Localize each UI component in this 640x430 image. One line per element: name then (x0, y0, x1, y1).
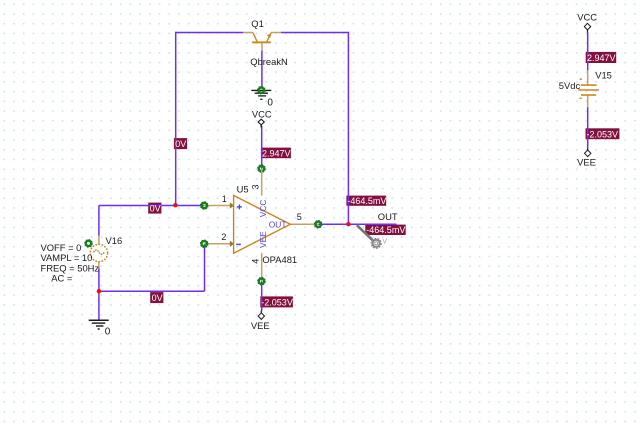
svg-text:3: 3 (250, 184, 260, 189)
svg-text:AC =: AC = (51, 273, 73, 284)
wire VCC symbol to op-amp pin 3 (261, 126, 263, 169)
wire junction to ground 0 (98, 291, 100, 320)
battery V15 (578, 70, 599, 107)
op-amp minus input mark (236, 243, 241, 245)
svg-text:-464.5mV: -464.5mV (347, 196, 386, 206)
svg-text:QbreakN: QbreakN (250, 56, 288, 67)
svg-text:VEE: VEE (577, 156, 596, 167)
svg-text:OUT: OUT (378, 211, 398, 222)
op-amp U5 OPA481 (204, 169, 318, 282)
label -2.053V box on V15 bottom wire (586, 128, 620, 139)
svg-text:U5: U5 (237, 183, 249, 194)
source V16 sine (90, 236, 107, 269)
svg-text:-2.053V: -2.053V (261, 297, 293, 307)
wire op-amp pin 4 to VEE (261, 281, 263, 310)
svg-text:0V: 0V (150, 204, 161, 214)
power VEE below op-amp (251, 311, 270, 331)
wire V15 to VEE (587, 107, 589, 147)
node op-amp pin 3 (258, 165, 265, 172)
node op-amp pin 5 (315, 221, 322, 228)
label 0V box on lower horizontal wire (150, 292, 163, 303)
svg-text:OUT: OUT (269, 219, 287, 229)
wire left vertical from top rail to input rail (175, 32, 177, 206)
node op-amp pin 2 (201, 240, 208, 247)
svg-text:Q1: Q1 (251, 18, 264, 29)
svg-text:OPA481: OPA481 (262, 254, 297, 265)
wire op-amp pin 5 to OUT (318, 223, 396, 225)
junction dot output node (346, 222, 350, 226)
wire lower rail (99, 290, 205, 292)
node marker at V16 (85, 240, 92, 247)
power VEE right branch (577, 147, 596, 167)
junction dot lower rail (97, 289, 101, 293)
svg-text:0: 0 (267, 98, 273, 109)
svg-text:5Vdc: 5Vdc (559, 80, 581, 91)
svg-text:0: 0 (105, 326, 111, 337)
node op-amp pin 1 (201, 202, 208, 209)
label 0V box on upper horizontal wire (148, 203, 161, 214)
ground 0 at Q1 base (251, 90, 271, 99)
junction dot input rail (173, 203, 177, 207)
label 2.947V box at op-amp VCC (261, 148, 291, 159)
wire top rail left segment (175, 32, 243, 34)
ground 0 bottom left (89, 320, 109, 329)
svg-text:5: 5 (297, 212, 302, 222)
node op-amp pin 4 (258, 278, 265, 285)
transistor Q1 QbreakN (243, 33, 281, 51)
voltage probe marker at OUT (357, 225, 388, 248)
svg-text:0V: 0V (175, 139, 186, 149)
label 2.947V box on V15 top wire (586, 52, 617, 63)
svg-text:-464.5mV: -464.5mV (366, 225, 405, 235)
svg-text:0V: 0V (152, 293, 163, 303)
svg-text:VCC: VCC (577, 11, 597, 22)
wire right vertical to output node (347, 32, 349, 224)
label 0V box on left vertical wire (174, 138, 187, 149)
wire VCC to V15 (587, 32, 589, 70)
op-amp plus input mark (237, 204, 242, 209)
svg-text:V15: V15 (595, 69, 612, 80)
wire input rail to op-amp pin 1 (99, 205, 204, 207)
wire V16 minus down (98, 268, 100, 291)
svg-text:V: V (382, 239, 387, 246)
power VCC at op-amp (252, 109, 272, 128)
label -2.053V box at op-amp VEE (260, 296, 293, 307)
svg-text:V16: V16 (106, 235, 123, 246)
wire top rail right segment (281, 32, 349, 34)
label -464.5mV box at OUT probe (365, 225, 405, 235)
wire Q1 base to ground (261, 51, 263, 89)
svg-text:VEE: VEE (251, 320, 270, 331)
svg-text:2: 2 (221, 232, 226, 242)
wire op-amp pin 2 down (204, 244, 206, 291)
svg-text:VEE: VEE (258, 231, 268, 248)
wire V16 plus to input rail (98, 206, 100, 236)
svg-text:2.947V: 2.947V (587, 53, 616, 63)
svg-text:-2.053V: -2.053V (587, 129, 619, 139)
svg-text:VCC: VCC (252, 109, 272, 120)
svg-text:2.947V: 2.947V (262, 148, 291, 158)
node at Q1 base ground (258, 87, 265, 94)
svg-text:1: 1 (222, 194, 227, 204)
svg-text:VCC: VCC (258, 200, 268, 218)
label -464.5mV box on vertical output wire (346, 196, 386, 206)
power VCC right branch (577, 11, 597, 32)
svg-text:4: 4 (250, 259, 260, 264)
